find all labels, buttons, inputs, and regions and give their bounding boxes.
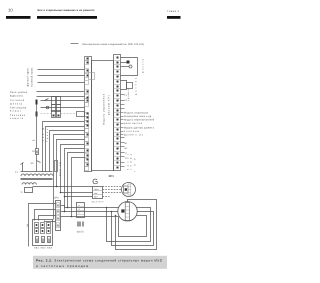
svg-text:об: об xyxy=(33,139,36,142)
corner wire 3 xyxy=(50,131,85,172)
svg-text:Далее к (1): Далее к (1) xyxy=(124,134,143,137)
svg-text:Модуль (датчик) уровня и: Модуль (датчик) уровня и xyxy=(124,127,155,130)
corner wire 6 xyxy=(61,145,85,193)
contact bar K1 xyxy=(36,100,38,105)
lamp HL1 xyxy=(36,237,39,243)
pin stubs group xyxy=(121,95,125,167)
corner wire 2 xyxy=(46,127,85,172)
svg-text:датчик: датчик xyxy=(135,78,138,95)
tacho wire b xyxy=(61,192,93,194)
svg-text:SA: SA xyxy=(31,162,34,165)
right strip pin cells xyxy=(117,57,119,169)
motor loops xyxy=(107,200,157,250)
wire N xyxy=(38,82,85,84)
note dash xyxy=(71,43,79,45)
right text block xyxy=(124,112,155,137)
loop B from bus1 xyxy=(107,208,151,242)
svg-text:Реле уровня: Реле уровня xyxy=(10,91,28,94)
switch tick SA1 xyxy=(37,161,41,163)
svg-text:Все о стиральных машинах и их: Все о стиральных машинах и их ремонте xyxy=(38,9,96,12)
pin1 bracket wire xyxy=(121,58,138,76)
relay grid boxes xyxy=(52,97,56,105)
svg-text:РКС-3М: РКС-3М xyxy=(59,162,62,176)
left stub xyxy=(22,163,24,172)
contact bar K2 xyxy=(36,112,38,117)
fused drop continues xyxy=(36,155,38,172)
motor circle xyxy=(118,202,137,221)
bus 211 xyxy=(61,211,118,213)
button dots xyxy=(36,224,50,232)
secondary coil xyxy=(22,183,36,185)
pins5-6 bracket xyxy=(121,81,127,90)
svg-text:нулевой пров.: нулевой пров. xyxy=(31,67,34,87)
small pin labels xyxy=(125,94,129,160)
block feed wires from connector A xyxy=(29,204,56,247)
svg-text:фазный пров.: фазный пров. xyxy=(27,67,30,86)
lamp HL2 xyxy=(42,237,45,243)
corner wire 1 xyxy=(43,122,85,172)
svg-text:блокировка люка и др.: блокировка люка и др. xyxy=(124,115,152,118)
svg-text:Модуль переключателей: Модуль переключателей xyxy=(124,119,155,122)
svg-text:слива: слива xyxy=(130,153,133,170)
svg-text:ХС4-ХТ7: ХС4-ХТ7 xyxy=(92,201,105,204)
svg-text:воды): воды) xyxy=(10,110,21,113)
linkage dashed xyxy=(41,113,52,115)
pin2 stub xyxy=(121,62,127,64)
motor commutator xyxy=(125,203,129,221)
svg-text:Т1: Т1 xyxy=(15,171,18,174)
wire L1 xyxy=(38,69,85,71)
svg-text:G: G xyxy=(92,177,98,186)
corner wire 8 xyxy=(68,153,85,208)
svg-text:ХР3: ХР3 xyxy=(54,197,59,200)
svg-text:и частотных приводов: и частотных приводов xyxy=(36,264,88,268)
header rule right xyxy=(167,16,181,19)
motor brush mark xyxy=(121,209,124,212)
strip internal dividers xyxy=(114,61,121,166)
svg-text:ХР1: ХР1 xyxy=(109,174,115,178)
inner bracket box xyxy=(89,73,95,80)
lamp HL3 xyxy=(48,237,51,243)
module box U1 xyxy=(92,61,114,171)
svg-text:М2: М2 xyxy=(125,147,129,150)
svg-text:М1: М1 xyxy=(125,142,129,145)
switch blade k1 xyxy=(45,99,49,101)
sensor box xyxy=(93,187,103,199)
fuse FU1 xyxy=(36,149,39,155)
svg-text:фильтр: фильтр xyxy=(142,58,145,73)
resistor R vert xyxy=(55,161,58,172)
svg-text:насос: насос xyxy=(127,153,130,170)
svg-text:Глава 2: Глава 2 xyxy=(167,10,180,13)
corner wire 7 xyxy=(65,149,85,212)
core lines xyxy=(21,178,53,180)
svg-text:уровня: уровня xyxy=(127,88,130,101)
wire gauge marks xyxy=(78,222,84,227)
junction dots xyxy=(56,186,117,218)
svg-text:клапаны: клапаны xyxy=(124,130,139,133)
connector strip XS1 left xyxy=(85,57,92,172)
switch drop x37 xyxy=(36,105,38,149)
header rule center xyxy=(37,16,97,19)
wire k2 xyxy=(41,107,85,109)
tacho commutator strip xyxy=(128,184,131,195)
primary coil xyxy=(21,174,53,176)
svg-text:Рис. 2.2. Электрическая схема: Рис. 2.2. Электрическая схема соединений… xyxy=(36,258,163,262)
bus 216 xyxy=(61,216,119,218)
corner wire 9 xyxy=(72,158,85,217)
svg-text:а: а xyxy=(79,204,81,207)
svg-text:фильтр: фильтр xyxy=(10,102,23,105)
svg-text:10: 10 xyxy=(8,8,13,13)
svg-text:щ: щ xyxy=(21,191,23,194)
svg-text:Сетевой: Сетевой xyxy=(10,99,25,102)
svg-text:Электрическая схема соединений: Электрическая схема соединений (см. РИС … xyxy=(82,43,144,46)
blade circle k2 xyxy=(46,106,49,109)
svg-text:воды (осн.): воды (осн.) xyxy=(10,94,23,97)
svg-text:разъем ХР1: разъем ХР1 xyxy=(108,94,111,115)
wire PE xyxy=(37,91,85,93)
corner wire 5 xyxy=(57,140,85,187)
open terminal circle xyxy=(129,65,132,68)
caption bg xyxy=(33,256,167,269)
pin2 mark xyxy=(127,61,130,64)
connector strip XP1 right xyxy=(114,55,121,171)
svg-text:в: в xyxy=(79,212,80,215)
svg-text:FU: FU xyxy=(32,150,35,153)
tacho wire a xyxy=(33,186,93,188)
svg-text:защита: защита xyxy=(10,117,24,120)
svg-text:ТЭН (нагрев: ТЭН (нагрев xyxy=(10,106,27,109)
secondary out box xyxy=(25,188,33,193)
svg-text:SB: SB xyxy=(27,223,30,227)
left tick xyxy=(21,163,24,165)
header rule left xyxy=(6,16,31,19)
wire L2 xyxy=(38,75,85,77)
pin3 stub xyxy=(121,66,130,68)
thermostat box xyxy=(77,112,85,117)
svg-text:тахо: тахо xyxy=(94,188,99,191)
corner wire 4 xyxy=(54,135,85,220)
wire k1 xyxy=(41,100,85,102)
svg-text:Модуль индикации: Модуль индикации xyxy=(124,112,149,115)
svg-text:ТЭН: ТЭН xyxy=(134,158,137,172)
xfmr top rail xyxy=(21,171,53,173)
svg-text:Транс: Транс xyxy=(46,128,49,142)
row3 marks xyxy=(53,115,55,117)
svg-text:Модуль управления: Модуль управления xyxy=(103,93,106,125)
dashes to tacho xyxy=(103,187,122,197)
inner rect xyxy=(119,216,147,237)
svg-text:ген.: ген. xyxy=(94,192,98,195)
tacho wire c xyxy=(65,196,93,198)
block outline xyxy=(33,220,53,246)
svg-text:реле насоса: реле насоса xyxy=(124,122,143,125)
svg-text:4х0,75: 4х0,75 xyxy=(77,231,85,234)
bus 205 xyxy=(61,205,65,207)
wire 5 xyxy=(37,96,85,98)
loop D from motor top xyxy=(116,200,157,250)
tacho circle G1 xyxy=(122,183,136,197)
left strip pin cells xyxy=(85,57,89,171)
tacho inner box xyxy=(124,186,129,193)
loop C from bus2 xyxy=(112,212,154,246)
button cells row 1 xyxy=(35,223,51,234)
svg-text:SB1 SB2 SB3: SB1 SB2 SB3 xyxy=(34,247,53,250)
svg-text:Тепловая: Тепловая xyxy=(10,114,26,117)
